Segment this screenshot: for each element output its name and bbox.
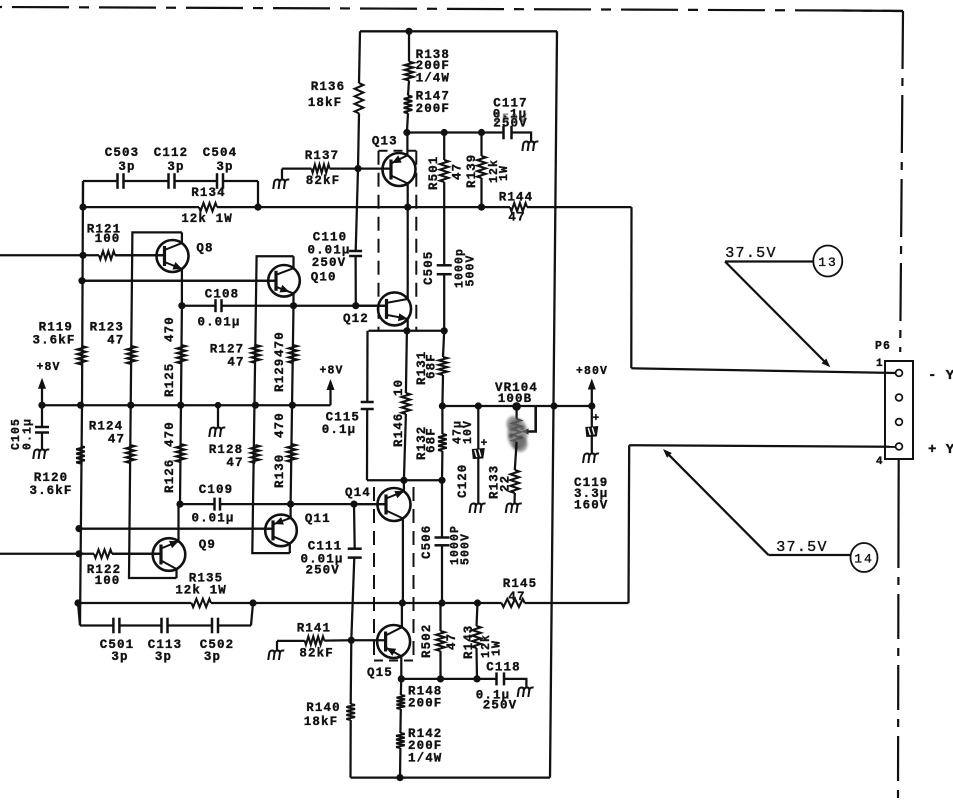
svg-text:Q9: Q9 — [199, 538, 216, 552]
wire cap row left drop — [82, 181, 84, 207]
wire C115 column upper — [366, 331, 368, 402]
transistor Q15 — [351, 603, 410, 679]
resistor R124 — [126, 445, 135, 463]
VR104 grey smudge — [507, 416, 528, 452]
svg-text:+ Y: + Y — [928, 442, 953, 458]
svg-text:3p: 3p — [111, 650, 128, 664]
capacitor C112 — [167, 173, 170, 189]
svg-text:3.6kF: 3.6kF — [32, 334, 75, 348]
svg-text:R145: R145 — [503, 577, 537, 591]
svg-text:R129: R129 — [273, 358, 287, 392]
svg-text:C506: C506 — [420, 525, 434, 559]
svg-text:R141: R141 — [297, 622, 331, 636]
capacitor C119 (polarized) — [591, 406, 593, 427]
svg-text:47: 47 — [508, 590, 525, 604]
wire R129/R130 column x=292 — [291, 306, 294, 504]
resistor R134 — [199, 203, 217, 211]
wire row406 box edge to +80V — [536, 405, 592, 407]
node R141/Q15 base — [348, 637, 355, 644]
callout 37.5V leader 13 — [725, 260, 813, 262]
node rail lower x=442 — [438, 599, 445, 606]
svg-text:R126: R126 — [163, 459, 177, 493]
resistor R135 — [192, 599, 212, 607]
node row679 x=401 — [398, 675, 405, 682]
svg-text:C109: C109 — [199, 483, 233, 497]
svg-text:3p: 3p — [155, 650, 172, 664]
svg-text:470: 470 — [273, 331, 287, 357]
transistor Q9 — [112, 504, 185, 578]
svg-text:3p: 3p — [118, 160, 135, 174]
svg-text:160V: 160V — [574, 499, 608, 513]
input wire upper (to Q8 base) — [0, 254, 99, 256]
ground for R141 — [276, 641, 278, 651]
+8V arrow left — [41, 387, 43, 405]
svg-text:+8V: +8V — [36, 361, 60, 374]
wire C108 row y=306 — [182, 305, 216, 307]
resistor R131 — [443, 331, 444, 357]
capacitor C105 — [41, 405, 43, 427]
wire bottom cap row — [80, 624, 113, 626]
amplifier enclosure box top edge — [360, 30, 557, 32]
svg-text:0.1µ: 0.1µ — [22, 418, 35, 450]
svg-text:3p: 3p — [167, 160, 184, 174]
svg-text:470: 470 — [273, 412, 287, 438]
svg-text:47: 47 — [108, 432, 125, 446]
shield dashed bottom closure lower — [374, 660, 414, 662]
node Q10 base row — [78, 277, 85, 284]
svg-text:82kF: 82kF — [299, 647, 333, 661]
main rail lower y=603 — [78, 602, 192, 604]
svg-text:37.5V: 37.5V — [776, 539, 828, 556]
svg-text:R501: R501 — [427, 156, 441, 190]
resistor R142 — [399, 709, 402, 733]
svg-text:0.01µ: 0.01µ — [197, 315, 240, 329]
svg-text:3p: 3p — [204, 650, 221, 664]
svg-text:C504: C504 — [203, 146, 237, 160]
svg-text:R134: R134 — [191, 186, 225, 200]
svg-text:R124: R124 — [89, 419, 123, 433]
svg-text:470: 470 — [163, 421, 177, 447]
svg-text:22: 22 — [499, 475, 513, 492]
svg-text:18kF: 18kF — [308, 96, 342, 110]
svg-text:250V: 250V — [305, 564, 339, 578]
callout 37.5V leader 14 — [769, 554, 851, 556]
node C108 Q10 emitter — [290, 302, 297, 309]
ground on +8V rail — [217, 405, 219, 428]
node rail x=481 — [478, 204, 485, 211]
node rail/cap row left — [79, 204, 86, 211]
wire C111 column lower — [351, 558, 354, 641]
svg-text:C108: C108 — [205, 288, 239, 302]
node C108 left — [178, 302, 185, 309]
svg-text:C112: C112 — [154, 146, 188, 160]
resistor R139 — [477, 156, 486, 178]
svg-text:500V: 500V — [465, 254, 478, 286]
resistor R121 — [99, 251, 115, 259]
node row406 x=442 — [439, 402, 446, 409]
resistor R137 — [282, 167, 312, 169]
node R136/R137/Q13 base — [354, 165, 361, 172]
VR104 wiper loop — [525, 406, 536, 432]
svg-text:200F: 200F — [408, 696, 442, 710]
node box bottom — [396, 774, 403, 781]
svg-text:+8V: +8V — [319, 365, 343, 378]
svg-text:82kF: 82kF — [306, 174, 340, 188]
node rail lower x=253 — [249, 599, 256, 606]
svg-text:250V: 250V — [312, 256, 346, 270]
resistor R128 — [251, 445, 260, 463]
svg-text:47: 47 — [451, 163, 465, 180]
resistor R127 — [252, 345, 261, 363]
resistor R129 — [289, 345, 298, 363]
connector P6 body — [885, 361, 913, 459]
svg-text:C505: C505 — [422, 251, 436, 285]
svg-text:R502: R502 — [420, 624, 434, 658]
node row480 x=404 — [400, 477, 407, 484]
resistor R141 — [277, 640, 305, 642]
node rail lower x=402 — [399, 599, 406, 606]
resistor R138 — [408, 31, 410, 61]
capacitor C506 — [441, 480, 443, 537]
node row331 x=444 — [441, 327, 448, 334]
svg-text:200F: 200F — [416, 102, 450, 116]
shield dashed line upper left — [378, 151, 380, 331]
ground for C120 — [470, 504, 486, 514]
transistor Q10 — [82, 256, 300, 306]
resistor R146 — [406, 331, 407, 393]
wire Q11 base row — [79, 527, 273, 529]
svg-text:C503: C503 — [105, 146, 139, 160]
svg-text:R127: R127 — [210, 343, 244, 357]
svg-text:C110: C110 — [313, 231, 347, 245]
circle 14 — [851, 543, 878, 572]
node input upper — [79, 252, 86, 259]
node rail x=131 — [127, 402, 134, 409]
resistor R133 — [515, 442, 517, 470]
main rail upper y=207 — [83, 206, 199, 208]
svg-text:R137: R137 — [305, 149, 339, 163]
svg-text:10: 10 — [392, 379, 406, 396]
shield dashed line lower right — [413, 487, 415, 661]
capacitor C505 — [443, 207, 445, 265]
capacitor C108 — [214, 299, 217, 312]
svg-text:47: 47 — [107, 334, 124, 348]
svg-text:47: 47 — [226, 456, 243, 470]
+80V arrow — [591, 389, 593, 406]
svg-text:1W: 1W — [498, 165, 511, 181]
wire C110 column lower — [354, 256, 356, 306]
svg-text:12k 1W: 12k 1W — [181, 212, 233, 226]
wire C115 column lower — [366, 409, 368, 480]
svg-text:R125: R125 — [163, 363, 177, 397]
node rail x=255 — [252, 402, 259, 409]
capacitor C502 — [211, 618, 214, 634]
resistor R144 — [510, 203, 527, 211]
svg-text:R146: R146 — [392, 413, 406, 447]
svg-text:R136: R136 — [311, 80, 345, 94]
svg-text:0.1µ: 0.1µ — [322, 423, 356, 437]
node row132 x=407 — [403, 129, 410, 136]
ground for R133 — [506, 504, 522, 514]
svg-text:470: 470 — [163, 316, 177, 342]
svg-text:Q14: Q14 — [345, 486, 371, 500]
svg-text:R119: R119 — [39, 321, 73, 335]
svg-text:250V: 250V — [493, 112, 527, 126]
resistor R502 — [439, 603, 441, 631]
svg-text:R139: R139 — [465, 154, 479, 188]
transistor Q12 — [356, 207, 411, 331]
capacitor C111 — [348, 547, 362, 550]
capacitor C113 — [160, 618, 163, 634]
node C109 left — [176, 501, 183, 508]
svg-text:3.6kF: 3.6kF — [29, 484, 72, 498]
svg-text:R143: R143 — [462, 625, 476, 659]
node row406 x=554 — [550, 402, 557, 409]
svg-text:R123: R123 — [90, 321, 124, 335]
connector P6 pin 3 circle — [896, 419, 903, 426]
node rail x=407 — [404, 204, 411, 211]
resistor R126 — [176, 444, 185, 462]
ground for C118 — [518, 688, 534, 698]
svg-text:Q15: Q15 — [367, 666, 393, 680]
node input lower — [75, 550, 82, 557]
svg-text:500V: 500V — [460, 533, 473, 565]
capacitor C504 — [216, 173, 219, 189]
cut line right border (dash-dot vertical) — [900, 11, 903, 352]
wire Q13 collector row — [407, 131, 504, 133]
svg-text:100: 100 — [95, 574, 121, 588]
node C109 C111 — [350, 501, 357, 508]
svg-text:+80V: +80V — [576, 365, 608, 378]
wire Q12 emitter row y=331 — [369, 330, 445, 332]
node rail lower x=477 — [474, 599, 481, 606]
svg-text:Q11: Q11 — [305, 512, 331, 526]
wire top cap row — [83, 180, 118, 182]
wire C117 to ground — [512, 133, 532, 143]
svg-text:3p: 3p — [216, 160, 233, 174]
transistor Q8 — [115, 232, 189, 305]
wire Q14 top row y=480 — [367, 479, 442, 481]
resistor R136 — [355, 83, 364, 113]
resistor R119 — [77, 346, 86, 365]
resistor R140 — [350, 640, 353, 704]
wire -Y to P6 pin1 — [631, 368, 895, 373]
svg-text:68F: 68F — [425, 353, 439, 379]
svg-text:C118: C118 — [486, 661, 520, 675]
capacitor C109 — [213, 498, 216, 511]
node row406 x=478 — [475, 402, 482, 409]
resistor R148 — [400, 679, 403, 695]
node rail x=293 — [289, 402, 296, 409]
svg-text:1: 1 — [876, 358, 884, 370]
svg-text:13: 13 — [818, 255, 838, 270]
capacitor C501 — [112, 618, 115, 634]
node Q11 base row — [75, 525, 82, 532]
svg-text:0.01µ: 0.01µ — [191, 512, 234, 526]
node rail x=79 — [77, 402, 84, 409]
wire R123/R124 column x=130 — [129, 232, 182, 578]
svg-text:1W: 1W — [491, 640, 504, 656]
+8V rail y=405 — [42, 404, 331, 406]
wire -Y vertical from rail — [630, 207, 632, 368]
capacitor C110 — [349, 250, 362, 253]
wire R127/R128 column x=254 — [252, 256, 293, 553]
node row132 x=444 — [441, 129, 448, 136]
resistor R132 — [441, 406, 443, 434]
+8V arrow right — [329, 388, 331, 405]
resistor R123 — [127, 346, 136, 364]
wire R136 to node — [358, 113, 359, 168]
amplifier enclosure box right edge — [550, 31, 557, 777]
svg-text:R140: R140 — [306, 701, 340, 715]
svg-text:Q13: Q13 — [372, 135, 398, 149]
connector P6 pin 1 circle — [896, 370, 903, 377]
svg-text:250V: 250V — [483, 699, 517, 713]
resistor R147 — [408, 80, 409, 95]
node rail x=180 — [177, 402, 184, 409]
svg-text:14: 14 — [854, 552, 874, 567]
svg-text:P6: P6 — [875, 340, 891, 353]
wire left column x=82 — [82, 181, 83, 405]
svg-text:10V: 10V — [462, 420, 475, 444]
ground for C105 — [33, 450, 49, 460]
svg-text:Q8: Q8 — [196, 242, 213, 256]
input wire lower (to Q9 base) — [0, 553, 94, 555]
ground for R137 — [281, 169, 283, 180]
wire bottom cap row right drop — [251, 603, 253, 626]
connector P6 pin 4 circle — [896, 443, 903, 450]
wire C118 to ground — [504, 679, 526, 688]
svg-text:R130: R130 — [273, 454, 287, 488]
amplifier enclosure box bottom edge — [351, 776, 551, 778]
svg-text:C120: C120 — [456, 464, 470, 498]
svg-text:C111: C111 — [308, 540, 342, 554]
cut line top border (dash-dot) — [0, 7, 903, 11]
node C108 C110 — [352, 302, 359, 309]
capacitor C118 — [495, 672, 498, 685]
circle 13 — [813, 246, 842, 277]
shield dashed line upper right — [415, 151, 417, 331]
capacitor C115 — [361, 401, 374, 404]
wire VR104 row y=406 — [442, 405, 535, 407]
wire Q10 base row — [82, 280, 276, 282]
wire C111 column upper — [353, 504, 356, 549]
svg-text:12k 1W: 12k 1W — [175, 584, 227, 598]
node C109 Q11 emitter — [287, 501, 294, 508]
node row406 x=592 — [588, 402, 595, 409]
wire R125/R126 column x=180 — [180, 306, 182, 504]
resistor R501 — [440, 160, 449, 182]
wire C110 column upper — [356, 169, 358, 251]
svg-text:37.5V: 37.5V — [725, 245, 777, 262]
node rail x=42 — [38, 402, 45, 409]
capacitor C117 — [502, 126, 505, 140]
resistor R143 — [477, 603, 478, 626]
svg-text:100B: 100B — [498, 392, 532, 406]
svg-text:4: 4 — [876, 456, 884, 468]
transistor Q13 — [358, 133, 416, 208]
svg-text:47: 47 — [508, 211, 525, 225]
node row480 x=442 — [438, 477, 445, 484]
resistor R122 — [94, 550, 112, 558]
transistor Q11 — [79, 504, 297, 553]
resistor R145 — [502, 599, 525, 607]
wire C109 row y=504 — [180, 503, 215, 505]
shield dashed top closure upper — [379, 150, 417, 152]
wire box left edge upper — [359, 31, 360, 83]
transistor Q14 — [354, 480, 411, 603]
node row132 x=481 — [478, 129, 485, 136]
wire bottom cap row left drop — [78, 603, 80, 626]
resistor R125 — [177, 345, 186, 364]
wire +Y to P6 pin4 — [629, 445, 896, 447]
wire cap row right drop — [257, 181, 259, 207]
svg-text:1/4W: 1/4W — [416, 72, 450, 86]
svg-text:- Y: - Y — [928, 368, 953, 384]
svg-text:68F: 68F — [425, 427, 439, 453]
resistor R120 — [76, 446, 85, 464]
svg-text:47: 47 — [445, 633, 459, 650]
ground for C117 — [522, 142, 538, 152]
svg-text:+: + — [593, 413, 601, 425]
connector P6 pin 2 circle — [896, 394, 903, 401]
node row406 x=516 — [512, 402, 521, 411]
capacitor C503 — [116, 173, 119, 189]
ground for C119 — [583, 454, 599, 464]
wire Q15 bottom row y=679 — [401, 678, 496, 680]
node row679 x=477 — [473, 675, 480, 682]
svg-text:R128: R128 — [209, 443, 243, 457]
svg-text:18kF: 18kF — [304, 715, 338, 729]
resistor R130 — [287, 444, 296, 462]
potentiometer VR104 — [513, 419, 521, 442]
svg-text:47: 47 — [227, 356, 244, 370]
capacitor C120 (polarized) — [477, 406, 479, 449]
svg-text:R144: R144 — [499, 191, 533, 205]
node rail lower left — [74, 599, 81, 606]
svg-text:1/4W: 1/4W — [408, 752, 442, 766]
node box top — [405, 28, 412, 35]
node row331 x=407 — [403, 327, 410, 334]
svg-text:100: 100 — [95, 232, 121, 246]
svg-text:+: + — [481, 438, 489, 450]
shield dashed line lower left — [373, 487, 375, 661]
svg-text:Q10: Q10 — [311, 270, 337, 284]
svg-text:Q12: Q12 — [343, 312, 369, 326]
wire +Y vertical to rail — [627, 445, 630, 603]
node row679 x=440 — [437, 675, 444, 682]
node rail/cap row right — [254, 204, 261, 211]
